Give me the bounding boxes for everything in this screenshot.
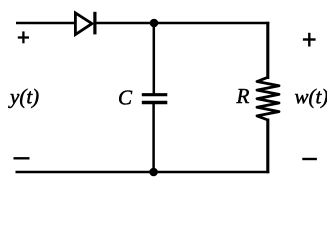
svg-text:C: C — [118, 86, 133, 110]
diode D1 (series, anode left) — [75, 12, 95, 35]
junction dot: bottom node — [149, 168, 158, 177]
wire: capacitor bottom plate down to bottom node — [152, 104, 155, 173]
wire: top node down to capacitor top plate — [153, 23, 156, 94]
polarity mark: + (right, output) — [303, 33, 316, 47]
wire: top node to top-right corner — [154, 22, 269, 24]
svg-text:w(t): w(t) — [295, 85, 327, 109]
polarity mark: - (right, output) — [302, 158, 317, 160]
capacitor C (bottom plate) — [142, 101, 168, 104]
wire: diode cathode to top node — [95, 22, 154, 24]
wire: top-right corner down to resistor — [266, 22, 269, 79]
junction dot: top node — [150, 19, 159, 28]
capacitor C (top plate) — [142, 93, 168, 96]
resistor R (zigzag body) — [257, 77, 279, 120]
polarity mark: - (left, input) — [14, 157, 30, 159]
svg-text:R: R — [236, 84, 250, 108]
svg-text:y(t): y(t) — [8, 84, 39, 108]
wire: resistor down to bottom-right corner — [266, 119, 269, 174]
polarity mark: + (left, input) — [18, 31, 29, 43]
wire: bottom rail — [16, 171, 270, 173]
wire: top-left segment (source to diode anode) — [16, 22, 76, 24]
